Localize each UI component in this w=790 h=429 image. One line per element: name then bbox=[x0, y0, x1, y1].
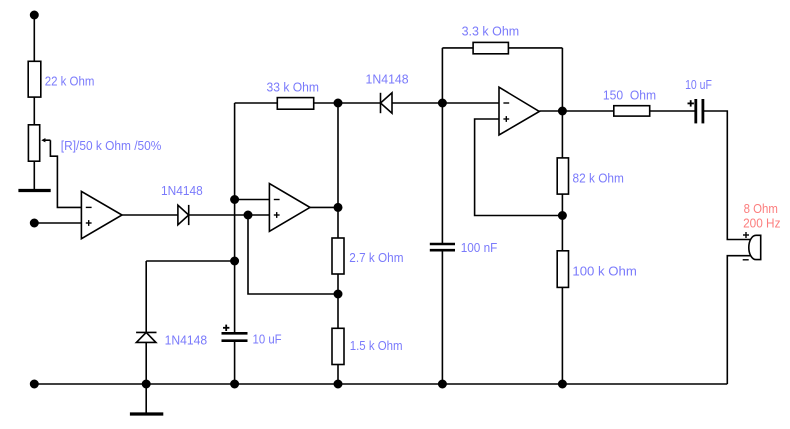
node rail junction C3 bbox=[231, 380, 238, 387]
wire bbox=[337, 274, 339, 328]
wire bbox=[145, 342, 147, 414]
wire bbox=[235, 199, 270, 201]
capacitor C3 10 uF detector bbox=[222, 325, 248, 341]
wire bbox=[727, 256, 750, 384]
wire bbox=[33, 97, 35, 125]
diode D1 1N4148 bbox=[178, 205, 189, 225]
wire bbox=[508, 47, 562, 49]
node feedback divider junction bbox=[334, 290, 341, 297]
wire bbox=[441, 250, 443, 384]
resistor R7 82 k Ohm bbox=[557, 158, 568, 194]
resistor R5 1.5 k Ohm bbox=[332, 328, 344, 364]
wire bbox=[561, 287, 563, 384]
resistor R6 3.3 k Ohm bbox=[473, 42, 508, 53]
ground GND2 bbox=[130, 412, 163, 415]
svg-text:10 uF: 10 uF bbox=[685, 77, 712, 92]
wire ground rail bbox=[34, 383, 727, 385]
resistor R9 150 Ohm bbox=[614, 106, 650, 116]
wire bbox=[441, 48, 443, 244]
node U3 output junction bbox=[559, 107, 566, 114]
wire U3 plus loop bbox=[475, 119, 563, 216]
wire bbox=[33, 15, 35, 61]
resistor R8 100 k Ohm bbox=[557, 251, 568, 288]
wire bbox=[145, 261, 147, 332]
wire wiper to op-amp U1 inverting input bbox=[50, 140, 81, 207]
resistor R3 33 k Ohm bbox=[277, 98, 313, 110]
node rail junction output divider bbox=[559, 380, 566, 387]
op-amp U1 bbox=[81, 191, 122, 238]
svg-text:82 k Ohm: 82 k Ohm bbox=[573, 170, 624, 185]
node U2 output junction bbox=[334, 204, 341, 211]
node feedback top junction bbox=[334, 99, 341, 106]
op-amp U2 bbox=[269, 184, 310, 232]
node supply terminal bbox=[31, 11, 38, 18]
wire bbox=[539, 110, 614, 112]
ground GND1 bbox=[18, 189, 50, 192]
node rail junction divider bbox=[334, 380, 341, 387]
wire bbox=[310, 206, 338, 208]
wire bbox=[235, 102, 278, 104]
node rail terminal bbox=[31, 380, 38, 387]
resistor R1 22 k Ohm bbox=[28, 61, 41, 97]
svg-text:150 Ohm: 150 Ohm bbox=[603, 87, 656, 102]
svg-text:100 k Ohm: 100 k Ohm bbox=[572, 263, 636, 278]
wire bbox=[337, 365, 339, 385]
node rail junction D3 bbox=[143, 380, 150, 387]
svg-text:[R]/50 k Ohm /50%: [R]/50 k Ohm /50% bbox=[61, 138, 162, 153]
potentiometer R2 50 k Ohm bbox=[28, 125, 50, 161]
wire bbox=[189, 214, 270, 216]
svg-text:2.7 k Ohm: 2.7 k Ohm bbox=[349, 250, 403, 265]
wire bbox=[561, 48, 563, 158]
wire bbox=[442, 47, 473, 49]
node detector junction bbox=[231, 257, 238, 264]
svg-text:33 k Ohm: 33 k Ohm bbox=[267, 79, 320, 94]
wire bbox=[34, 222, 81, 224]
wire bbox=[234, 341, 236, 384]
wire bbox=[337, 103, 339, 238]
svg-text:8 Ohm: 8 Ohm bbox=[744, 201, 778, 216]
node input terminal bbox=[31, 219, 38, 226]
capacitor C2 10 uF output bbox=[688, 99, 703, 123]
wire bbox=[248, 215, 338, 294]
svg-text:200 Hz: 200 Hz bbox=[743, 216, 780, 231]
capacitor C1 100 nF bbox=[430, 244, 455, 250]
svg-text:1.5 k Ohm: 1.5 k Ohm bbox=[350, 338, 403, 353]
svg-text:1N4148: 1N4148 bbox=[165, 333, 208, 348]
wire bbox=[442, 102, 499, 104]
resistor R4 2.7 k Ohm bbox=[332, 238, 344, 274]
svg-text:100 nF: 100 nF bbox=[461, 240, 498, 255]
speaker LS1 bbox=[743, 232, 761, 260]
wire bbox=[314, 102, 443, 104]
node junction diode to U2 plus bbox=[244, 211, 251, 218]
diode D2 1N4148 bbox=[381, 93, 393, 113]
wire bbox=[234, 103, 236, 333]
wire bbox=[122, 214, 178, 216]
op-amp U3 bbox=[499, 87, 539, 135]
svg-text:22 k Ohm: 22 k Ohm bbox=[45, 74, 95, 89]
wire bbox=[33, 161, 35, 190]
wire bbox=[703, 111, 751, 240]
node diode to filter junction bbox=[439, 99, 446, 106]
svg-text:1N4148: 1N4148 bbox=[161, 183, 203, 198]
diode D3 1N4148 bbox=[136, 332, 156, 342]
wire bbox=[650, 110, 696, 112]
node divider junction bbox=[559, 212, 566, 219]
svg-text:1N4148: 1N4148 bbox=[366, 72, 409, 87]
node rail junction filter bbox=[439, 380, 446, 387]
node U2 minus junction bbox=[231, 196, 238, 203]
wire bbox=[561, 194, 563, 251]
svg-text:3.3 k Ohm: 3.3 k Ohm bbox=[462, 24, 520, 39]
svg-text:10 uF: 10 uF bbox=[253, 331, 282, 346]
wire bbox=[146, 260, 234, 262]
